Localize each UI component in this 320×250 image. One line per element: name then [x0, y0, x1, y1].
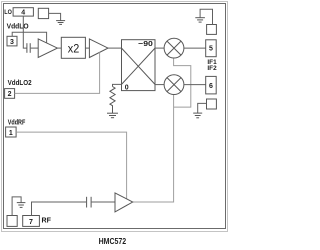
svg-text:2: 2 — [8, 91, 12, 98]
svg-text:4: 4 — [21, 9, 25, 16]
wire capacitor C2 to amp A3 — [92, 201, 115, 203]
pad (top left, LO ground) — [38, 8, 48, 18]
amplifier A1 (LO) — [38, 39, 57, 58]
wire A2 to hybrid — [108, 47, 122, 49]
wire pad to ground (bottom right) — [198, 103, 207, 113]
wire hybrid to resistor R1 — [113, 84, 122, 86]
svg-text:0: 0 — [125, 84, 129, 91]
frequency doubler x2 block — [61, 37, 85, 58]
wire mixer M2 to pin 6 — [184, 84, 206, 86]
pin 7 box — [23, 216, 40, 227]
wire mixer M1 to pin 5 — [184, 47, 206, 49]
ground (bottom right) — [193, 113, 202, 118]
pin 2 box — [5, 89, 15, 99]
wire pad to ground (top left) — [49, 13, 61, 20]
capacitor C2 (RF coupling) — [87, 197, 92, 208]
amplifier A2 (LO) — [89, 39, 108, 58]
wire pad to ground (bottom left) — [12, 197, 21, 216]
ground (top left) — [56, 21, 65, 25]
mixer M1 — [164, 38, 184, 58]
capacitor C1 (LO coupling) — [27, 43, 30, 53]
wire VddRF pin1 to amp A3 supply — [16, 132, 127, 199]
inner border frame — [4, 4, 226, 229]
svg-text:VddLO: VddLO — [7, 22, 29, 31]
svg-text:x2: x2 — [68, 41, 80, 55]
svg-text:LO: LO — [4, 9, 12, 16]
wire RF pin7 to capacitor C2 — [32, 202, 87, 216]
wire RF to mixers (from amp A3 output) — [133, 95, 174, 203]
svg-text:−90: −90 — [138, 39, 153, 48]
pin 5 box — [206, 40, 217, 57]
wire capacitor to amp A1 — [31, 47, 39, 49]
wire hybrid to mixer M2 — [155, 84, 164, 86]
wire pad to ground (top right) — [200, 9, 212, 24]
wire A1 to x2 — [57, 47, 61, 49]
svg-text:1: 1 — [9, 130, 13, 137]
svg-text:6: 6 — [209, 83, 213, 90]
pin 1 box — [6, 127, 17, 137]
outer border frame — [2, 2, 228, 232]
wire VddLO2 pin2 to amp A2 supply — [15, 52, 100, 93]
pad (bottom right) — [207, 99, 217, 109]
wire RF branch to mixer M1 — [174, 58, 191, 107]
wire hybrid to mixer M1 — [155, 47, 164, 49]
mixer M2 — [164, 75, 184, 95]
wire x2 to amp A2 — [85, 47, 89, 49]
svg-text:3: 3 — [10, 39, 14, 46]
wire LO pin4 to capacitor — [23, 16, 26, 48]
resistor R1 (termination) — [110, 87, 115, 114]
ground (top right) — [195, 18, 205, 22]
svg-text:VddLO2: VddLO2 — [8, 78, 32, 87]
svg-text:HMC572: HMC572 — [99, 237, 127, 246]
ground (bottom left) — [17, 203, 26, 208]
pin 3 box — [7, 36, 17, 46]
ground (below R1) — [107, 113, 118, 118]
90 degree hybrid U1 — [122, 39, 156, 92]
pad (bottom left, RF ground) — [7, 216, 17, 227]
svg-text:IF2: IF2 — [207, 65, 217, 72]
svg-text:RF: RF — [42, 218, 52, 225]
svg-text:VddRF: VddRF — [8, 117, 26, 126]
svg-text:7: 7 — [29, 219, 33, 226]
pad (top right) — [207, 25, 217, 35]
wire VddLO pin3 to amp A1 supply — [12, 32, 46, 43]
amplifier A3 (RF) — [115, 193, 133, 212]
pin 6 box — [206, 76, 217, 94]
pin 4 box — [13, 8, 33, 16]
svg-text:5: 5 — [209, 46, 213, 53]
